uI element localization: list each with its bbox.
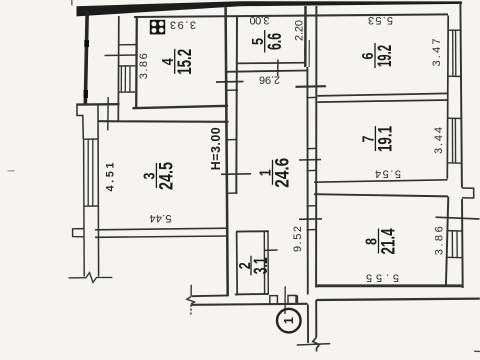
wire room4 bottom wall [133, 106, 229, 108]
window W6 lines [452, 30, 454, 76]
svg-text:3.00: 3.00 [250, 14, 270, 26]
tick dim 2.96 left segment [216, 81, 244, 84]
window W4 inner lines [87, 139, 89, 206]
window W4 left wall rails [84, 138, 99, 140]
svg-text:15.2: 15.2 [173, 49, 196, 75]
svg-text:3.86: 3.86 [434, 226, 446, 255]
tick central c [299, 218, 322, 221]
window W7 lines [451, 118, 453, 163]
dimension 5.54 [375, 168, 401, 180]
dimension 2.96 [259, 74, 280, 86]
break cross line bottom [297, 344, 331, 345]
window W8 lines [451, 231, 453, 258]
dimension 3.44 [433, 127, 445, 154]
svg-text:3.44: 3.44 [433, 127, 445, 154]
svg-text:6.6: 6.6 [263, 33, 286, 50]
dimension 5.53 [368, 14, 393, 26]
room label 6/19.2 [359, 43, 396, 68]
wire room5 bottom wall upper [237, 62, 307, 65]
svg-text:5.53: 5.53 [368, 14, 393, 26]
dimension 3.86 left [138, 53, 150, 79]
wire right inner wall line lower room8 [446, 197, 448, 288]
noise mark left margin [8, 170, 15, 172]
room label 5/6.6 [248, 30, 285, 53]
svg-text:3.1: 3.1 [249, 257, 272, 274]
wire bottom outer wall right [316, 299, 480, 300]
tick dim 3.86 top [105, 54, 136, 57]
tick dim vertical crossing room3 top [107, 97, 109, 131]
balcony stub [462, 188, 474, 198]
dimension 3.93 [170, 18, 196, 30]
dimension 5.44 [150, 212, 172, 224]
wire room3 bottom wall lower [95, 236, 229, 237]
entrance jamb box 1 [270, 296, 278, 305]
wire shaft rung [119, 44, 136, 46]
wire room2 top wall [236, 230, 269, 232]
pilaster bump left wall [73, 229, 85, 237]
wire top inner face line rooms 4 5 6 [134, 14, 448, 17]
wire right inner wall line upper [446, 16, 449, 179]
wire rung a [226, 89, 238, 91]
svg-text:21.4: 21.4 [377, 228, 400, 254]
svg-text:3.93: 3.93 [170, 18, 196, 30]
wire divider 6/7 upper [318, 93, 449, 96]
wire central rung 2 [307, 147, 318, 149]
wire room3 bottom wall upper [95, 228, 229, 230]
wire room2 right wall line2 [267, 232, 269, 295]
wire top exterior wall [77, 1, 463, 16]
wire central rung 1 [307, 96, 318, 98]
tick mid left [221, 173, 251, 176]
door axis line [284, 286, 286, 314]
tick central b [299, 159, 321, 161]
wire rung b [227, 139, 238, 141]
tiny tick above top wall left [71, 0, 73, 6]
dimension 3.00 [250, 14, 270, 26]
svg-text:H=3.00: H=3.00 [209, 127, 223, 170]
wire left wall inner line [97, 105, 100, 277]
break line bottom left [69, 273, 113, 283]
tick room2 right [264, 249, 278, 251]
break line left bottom entrance [190, 285, 192, 297]
wire room2 right wall line1 [263, 232, 265, 295]
wire central rung 4 [307, 205, 318, 207]
room label 7/19.1 [359, 126, 396, 152]
svg-text:1: 1 [282, 317, 296, 324]
room label 2/3.1 [235, 256, 271, 276]
wire rung c [227, 192, 237, 194]
room label 4/15.2 [158, 49, 195, 75]
wire room4 left wall [135, 17, 138, 108]
wire stub wall right line with break [315, 300, 317, 338]
dimension 4.51 [105, 163, 117, 192]
tick central a [296, 85, 327, 88]
svg-text:9.52: 9.52 [292, 226, 304, 252]
dimension 3.47 [431, 39, 443, 67]
svg-text:5.55: 5.55 [366, 271, 399, 283]
stove icon room 4 [150, 20, 165, 35]
wire right outer wall upper [460, 3, 462, 188]
wire shaft left line [117, 16, 120, 121]
wire room4/room3 right wall [226, 6, 228, 296]
tick room5 bottom [277, 60, 279, 77]
wire central wall left line [306, 67, 308, 295]
wire room5 right wall thick [304, 6, 307, 67]
wire divider 6/7 lower [318, 100, 449, 102]
wire left wall step down [77, 104, 83, 140]
room label 3/24.5 [140, 162, 177, 190]
room label 1/24.6 [256, 158, 293, 188]
svg-text:5.54: 5.54 [375, 168, 401, 180]
vent hatch lines [120, 66, 122, 92]
wire room8 bottom wall [316, 284, 463, 287]
entrance jamb box 2 [288, 295, 296, 304]
node marker circle 1 [277, 309, 301, 333]
wire room8 top wall [314, 194, 448, 196]
svg-text:24.5: 24.5 [154, 162, 177, 190]
dimension 2.20 [294, 20, 306, 41]
svg-text:24.6: 24.6 [271, 158, 294, 188]
wire corridor bottom upper line [192, 294, 229, 297]
wire left exterior wall upper [85, 11, 87, 106]
svg-text:2.96: 2.96 [259, 74, 280, 86]
wire room2 left wall [236, 232, 239, 296]
dimension 9.52 [292, 226, 304, 252]
wire room3 top wall [98, 120, 229, 123]
entrance corner vertical [296, 295, 298, 303]
svg-text:3.47: 3.47 [431, 39, 443, 67]
wire room5 bottom wall lower [226, 71, 307, 72]
svg-text:5.44: 5.44 [150, 212, 172, 224]
svg-text:19.2: 19.2 [373, 45, 396, 67]
left wall smudge b [83, 90, 88, 98]
svg-text:19.1: 19.1 [373, 126, 396, 152]
svg-text:3.86: 3.86 [138, 53, 150, 79]
dimension 5.55 [366, 271, 399, 283]
artifact bottom right [474, 350, 480, 352]
wire right outer wall lower [461, 199, 464, 288]
wire central rung 5 [307, 229, 318, 231]
left wall smudge a [84, 40, 89, 47]
wire room2 bottom wall [235, 293, 269, 296]
wire corridor bottom lower line [192, 304, 308, 305]
wire central rung 3 [307, 169, 318, 171]
wire stub wall below entrance left line [307, 305, 309, 344]
svg-text:4.51: 4.51 [105, 163, 117, 192]
wire central wall right line [315, 6, 317, 288]
tick dim 3.86 right long [436, 217, 480, 219]
wire divider 7/8 upper [314, 180, 448, 182]
wire left wall jog bar [76, 103, 119, 106]
window W7 rails [448, 117, 461, 119]
wire left wall outer line lower [83, 139, 86, 277]
room label 8/21.4 [362, 228, 399, 254]
svg-text:2.20: 2.20 [294, 20, 306, 41]
window W6 rails [448, 29, 461, 31]
wire room5 left line corridor side [235, 16, 238, 194]
vent hatch rails [119, 65, 136, 67]
window W8 rails [447, 230, 462, 232]
node marker text 1 [282, 317, 296, 324]
dimension 3.86 right [434, 226, 446, 255]
dimension H=3.00 [209, 127, 223, 170]
